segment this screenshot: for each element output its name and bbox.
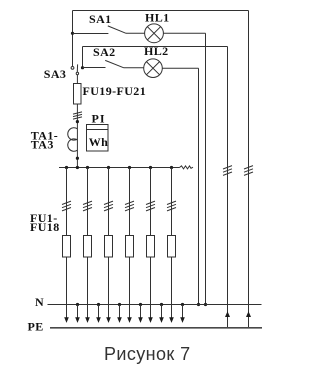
N drop 2 <box>96 303 101 323</box>
N drop 6 <box>180 303 185 323</box>
wire: SA2 branch top feed line <box>83 46 228 48</box>
wire: right vertical from SA2 feed line down to PE <box>227 47 229 328</box>
meter PI box <box>87 125 109 152</box>
node: junction of SA1 branch on main vertical <box>71 32 74 35</box>
wire: main vertical bus from top line down to SA3 <box>72 11 74 67</box>
wire: HL1 to right drop <box>163 32 205 34</box>
node: junction SA2 feed / switch line <box>81 66 84 69</box>
wire: right vertical from top line down to PE <box>248 11 250 328</box>
N drop 3 <box>117 303 122 323</box>
switch SA3: fixed contact on main vertical <box>71 67 74 70</box>
svg-text:N: N <box>35 295 44 309</box>
wire: vertical drop from HL1 line to N bus <box>205 33 207 304</box>
wire: top supply line L <box>73 10 249 12</box>
svg-text:Wh: Wh <box>89 135 108 149</box>
wire: SA1 branch left segment <box>73 33 109 35</box>
switch SA3: lower terminal <box>76 72 78 74</box>
break mark: zigzag at right end of bus <box>180 166 194 169</box>
svg-text:SA2: SA2 <box>93 45 116 59</box>
svg-text:FU18: FU18 <box>30 220 60 234</box>
wire: main distribution bus <box>59 167 180 169</box>
svg-text:SA3: SA3 <box>44 67 67 81</box>
node: junction below TA coil <box>76 157 79 160</box>
wire: vertical drop from HL2 line to N bus <box>198 68 200 304</box>
svg-text:FU19-FU21: FU19-FU21 <box>83 84 147 98</box>
wire: SA2 branch left segment <box>83 67 106 69</box>
feeder 1 <box>62 166 71 323</box>
N drop 4 <box>138 303 143 323</box>
wire: HL2 to right drop <box>162 67 198 69</box>
svg-text:Рисунок 7: Рисунок 7 <box>104 344 191 364</box>
svg-text:TA3: TA3 <box>31 138 54 152</box>
svg-text:PE: PE <box>28 319 44 333</box>
node: HL2 drop on N bus <box>197 303 200 306</box>
wire: SA2 to lamp HL2 <box>124 67 144 69</box>
current transformer TA1-TA3 (two turns) <box>68 128 78 151</box>
bus PE <box>50 327 262 329</box>
node: junction above TA coil <box>76 120 79 123</box>
wire: fuse to bus with break mark <box>76 104 78 167</box>
meter PI inner line <box>87 129 109 131</box>
feeder 4 <box>125 166 134 323</box>
switch SA1 (blade) <box>108 26 126 33</box>
lamp HL1 <box>145 24 164 43</box>
lamp HL2 <box>144 59 163 78</box>
svg-text:PI: PI <box>92 111 106 125</box>
break mark on meter riser <box>73 112 82 119</box>
arrow up on vertical x=227.5 <box>225 311 230 317</box>
fuse FU19-FU21 <box>76 83 78 104</box>
wire: left vertical of SA2 feed down to switch line <box>82 47 84 68</box>
bus N <box>48 304 262 306</box>
break mark on vertical x=227.5 <box>223 166 232 176</box>
switch SA2 (blade) <box>105 60 123 67</box>
svg-text:HL1: HL1 <box>145 10 170 24</box>
switch SA3: blade (open) <box>76 64 78 72</box>
svg-text:HL2: HL2 <box>144 44 169 58</box>
svg-text:SA1: SA1 <box>89 12 112 26</box>
N drop 5 <box>159 303 164 323</box>
feeder 3 <box>104 166 113 323</box>
feeder 2 <box>83 166 92 323</box>
wire: SA1 to lamp HL1 <box>126 32 145 34</box>
wire: SA3 down to fuse FU19-FU21 <box>76 75 78 83</box>
node: HL1 drop on N bus <box>204 303 207 306</box>
arrow up on vertical x=248 <box>246 311 251 317</box>
N drop 1 <box>75 303 80 323</box>
break mark on vertical x=248 <box>244 166 253 176</box>
feeder 5 <box>146 166 155 323</box>
node: meter riser junction on bus <box>76 166 79 169</box>
feeder 6 <box>167 166 176 323</box>
